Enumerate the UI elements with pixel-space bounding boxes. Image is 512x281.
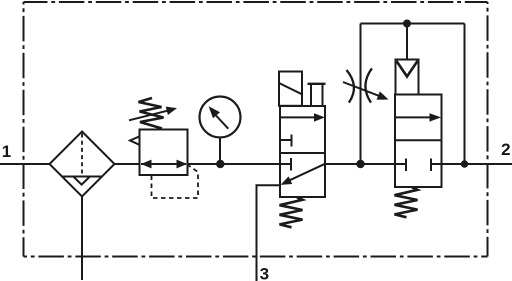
wire regulator to valve V1 (passes gauge tap) [188,163,281,165]
valve V2 position divider [395,139,442,141]
valve V2 return spring [395,187,418,217]
wire valve V1 exhaust to port3 [257,185,281,281]
throttle adjustment arrow [343,82,381,96]
throttle right arc [365,68,371,102]
valve V2 upper flow arrow [395,116,430,118]
filter F1 separator V [74,177,90,185]
svg-text:1: 1 [2,142,11,161]
svg-text:2: 2 [501,140,510,159]
junction dot gauge tap [216,160,224,168]
filter F1 drain line [81,197,83,281]
valve V2 body [395,95,442,188]
valve V1 manual override [308,83,326,85]
valve V1 body [280,106,325,197]
regulator R1 spring [139,98,164,129]
gauge G1 dial circle [200,97,241,138]
valve V1 lower blocked port T [280,158,291,171]
valve V2 lower left blocked port T [395,159,406,172]
filter F1 separator chord [63,176,102,178]
valve V1 upper blocked port T [280,135,292,147]
check valve V seat [397,61,418,77]
valve V1 position divider [280,152,325,154]
wire valve V2 to port2 [442,163,512,165]
regulator R1 adjustment arrow [129,110,169,120]
wire bus down to output [464,24,466,165]
throttle left arc [347,70,354,103]
regulator R1 left arrowhead [141,160,152,169]
filter F1 dashed centerline [81,134,83,177]
filter F1 diamond body [50,132,115,197]
regulator R1 body box [140,130,188,176]
gauge G1 needle [216,116,228,129]
regulator R1 flow line [141,163,186,165]
wire bus to check valve [406,24,408,60]
wire branch riser (throttle leg) [360,24,362,165]
wire valve V1 to valve V2 (passes branch tap) [325,163,395,165]
svg-text:3: 3 [260,265,269,281]
regulator R1 relief triangle [130,136,140,144]
gauge G1 stem [219,137,221,164]
valve V1 upper flow arrow [280,116,314,118]
valve V1 diagonal flow path [290,164,326,181]
check valve box [396,60,419,95]
regulator R1 right arrowhead [177,160,188,169]
junction dot top bus [403,20,411,28]
valve V1 solenoid box [279,72,302,106]
wire filter to regulator [115,163,140,165]
regulator R1 pilot dashed line [152,166,199,199]
valve V1 return spring [280,198,303,228]
valve V2 lower right blocked port T [431,159,442,172]
junction dot branch tap [356,160,364,168]
junction dot output tap [461,160,468,167]
wire top bus [361,23,465,25]
wire port1 to filter [0,163,50,165]
valve V1 solenoid diagonal [279,83,302,94]
